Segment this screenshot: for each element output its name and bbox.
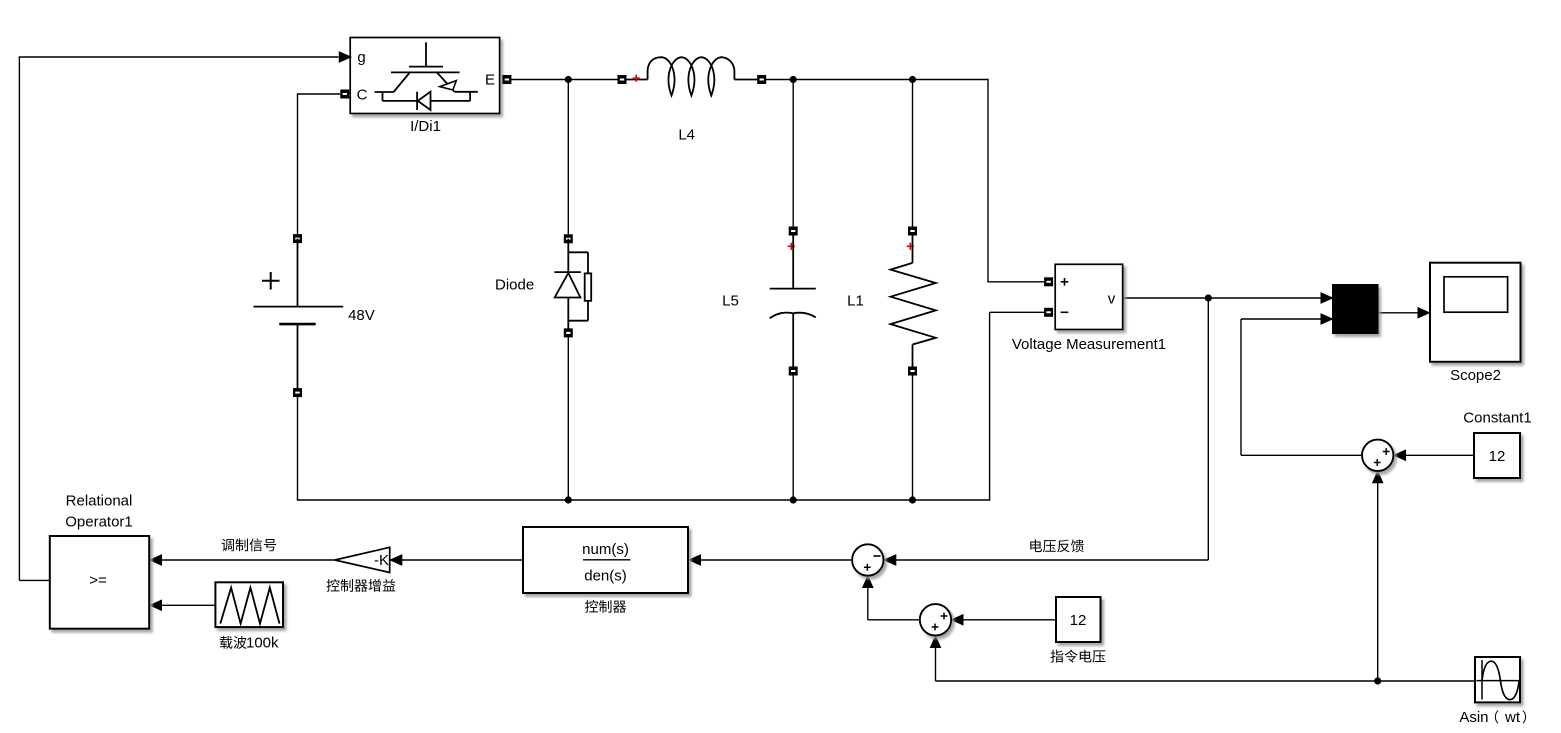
label L1 (847, 292, 864, 309)
wire: top rail from IGBT E to L4 and down to Voltage Measurement1 + (node between E, Diode, L4) (511, 79, 622, 81)
svg-text:L4: L4 (678, 127, 695, 144)
wire: 载波100k sawtooth to Relational Operator1 bottom input (150, 600, 215, 610)
summer U10 error sum junction (-+) (852, 544, 883, 575)
pin + of Voltage Measurement1 (1044, 277, 1053, 286)
node: junction of top rail and L5 branch (790, 76, 797, 83)
svg-text:Constant1: Constant1 (1463, 410, 1531, 427)
wire: Constant1 to Sum3 right input (1394, 450, 1474, 460)
summer U6 sum junction near Constant1 (++) (1362, 440, 1393, 471)
svg-text:Voltage Measurement1: Voltage Measurement1 (1012, 336, 1166, 353)
svg-text:-K: -K (374, 552, 389, 569)
label 控制器 (585, 600, 626, 613)
svg-text:100k: 100k (246, 635, 279, 652)
controller U11 transfer function num(s)/den(s) (523, 527, 688, 593)
constant U5 Constant1 value 12 (1474, 433, 1520, 478)
summer U9 sum junction command+sine (++) (920, 604, 951, 635)
label 48V (348, 307, 375, 324)
pin E of I/Di1 (485, 71, 511, 88)
wire: battery - down to bottom rail (297, 393, 990, 500)
wire: gain output to Relational Operator1 top input (150, 555, 335, 565)
amplifier U12 gain -K (points left) (335, 547, 390, 572)
label 电压反馈 net (1030, 539, 1084, 552)
wire: feedback branch down and left to Sum1 (电压反馈 net) (884, 298, 1208, 565)
resistor L1 load resistor (891, 227, 936, 376)
wire: top rail right of L4 to corner and down to + input (762, 79, 1044, 282)
comparator U13 Relational Operator1 (>=) (50, 536, 149, 629)
wire: Sum2 output left and up to Sum1 bottom input (863, 576, 920, 620)
node: junction of v output and feedback branch (1205, 294, 1212, 301)
svg-text:48V: 48V (348, 307, 375, 324)
label 载波100k (220, 635, 279, 652)
svg-text:L1: L1 (847, 292, 864, 309)
inductor L4 (618, 57, 767, 95)
label L4 (678, 127, 695, 144)
source U7 sine wave Asin(wt) (1475, 657, 1520, 702)
wire: Mux output to Scope2 (1379, 308, 1430, 318)
wire: Sum1 output to 控制器 transfer-function input (689, 555, 852, 565)
wire: Voltage Measurement1 v output to Mux input 1 (1123, 293, 1333, 303)
svg-text:num(s): num(s) (582, 541, 629, 558)
node: junction of top rail and L1 branch (909, 76, 916, 83)
label 调制信号 net (222, 538, 276, 551)
wire: 控制器 output to 控制器增益 gain input (调制信号 net) (390, 555, 523, 565)
svg-text:12: 12 (1489, 448, 1506, 465)
svg-text:Relational: Relational (66, 493, 133, 510)
wire: down to L5 top (792, 80, 794, 232)
wire: 指令电压 constant to Sum2 right input (952, 615, 1057, 625)
node: junction bottom rail / Diode cathode (565, 496, 572, 503)
svg-text:>=: >= (89, 572, 107, 589)
node: junction of sine branch and Sum3 branch (1374, 677, 1381, 684)
wire: Diode cathode down to bottom rail (567, 333, 569, 500)
svg-text:E: E (485, 71, 495, 88)
label 指令电压 (1050, 650, 1105, 663)
svg-text:Operator1: Operator1 (65, 514, 133, 531)
label 控制器增益 (326, 579, 395, 592)
svg-text:v: v (1108, 290, 1116, 307)
wire: feedforward up to Sum2 bottom input (930, 636, 940, 681)
pin g of I/Di1 with input arrowhead (339, 49, 365, 66)
wire: down to L1 top (912, 80, 914, 232)
wire: gate drive from Relational Operator1 output up and across to IGBT g input (19, 57, 339, 580)
oscilloscope U4 Scope2 (1430, 263, 1521, 362)
wire: down to Diode anode (567, 80, 569, 239)
pin - of Voltage Measurement1 (1044, 308, 1053, 317)
wire: L5 bottom down to bottom rail (792, 371, 794, 500)
wire: L1 bottom down to bottom rail (912, 371, 914, 500)
svg-text:wt: wt (1504, 709, 1521, 726)
pin C of I/Di1 (340, 86, 367, 103)
node: junction bottom rail / L1 bottom (909, 496, 916, 503)
svg-text:L5: L5 (722, 292, 739, 309)
label I/Di1 (410, 118, 441, 135)
svg-text:Asin: Asin (1459, 709, 1488, 726)
capacitor L5 output capacitor (770, 227, 816, 376)
svg-text:Scope2: Scope2 (1450, 367, 1501, 384)
label L5 (722, 292, 739, 309)
node: junction bottom rail / L5 bottom (790, 496, 797, 503)
source U14 triangle carrier 载波100k (215, 582, 283, 627)
label Constant1 (1463, 410, 1531, 427)
constant U8 command voltage value 12 (1056, 597, 1101, 642)
label Relational Operator1 (65, 493, 133, 531)
wire: sine branch up to Sum3 bottom input (1373, 471, 1383, 681)
diode D1 freewheeling diode with RC snubber (554, 234, 591, 337)
wire: Asin(wt) output to bottom feedforward net (936, 680, 1476, 682)
svg-text:g: g (357, 49, 365, 66)
label Diode (495, 276, 534, 293)
node: junction of E wire and Diode branch (565, 76, 572, 83)
mux U3 signal mux (black) (1332, 284, 1379, 334)
wire: Sum3 output up to Mux input 2 (1241, 314, 1362, 455)
label Asin（wt） (1459, 709, 1526, 726)
svg-text:Diode: Diode (495, 276, 534, 293)
wire: battery + up to IGBT C input (297, 94, 340, 234)
transistor U1 IGBT/Diode block I/Di1 (350, 38, 499, 114)
wire: bottom rail up to Voltage Measurement1 - input (990, 312, 1044, 500)
label Voltage Measurement1 (1012, 336, 1166, 353)
svg-text:12: 12 (1070, 612, 1087, 629)
svg-text:I/Di1: I/Di1 (410, 118, 441, 135)
svg-text:C: C (357, 86, 368, 103)
svg-text:den(s): den(s) (584, 568, 627, 585)
label Scope2 (1450, 367, 1501, 384)
battery B1 DC voltage source 48V (254, 234, 344, 397)
meter U2 Voltage Measurement1 block (1055, 264, 1123, 329)
